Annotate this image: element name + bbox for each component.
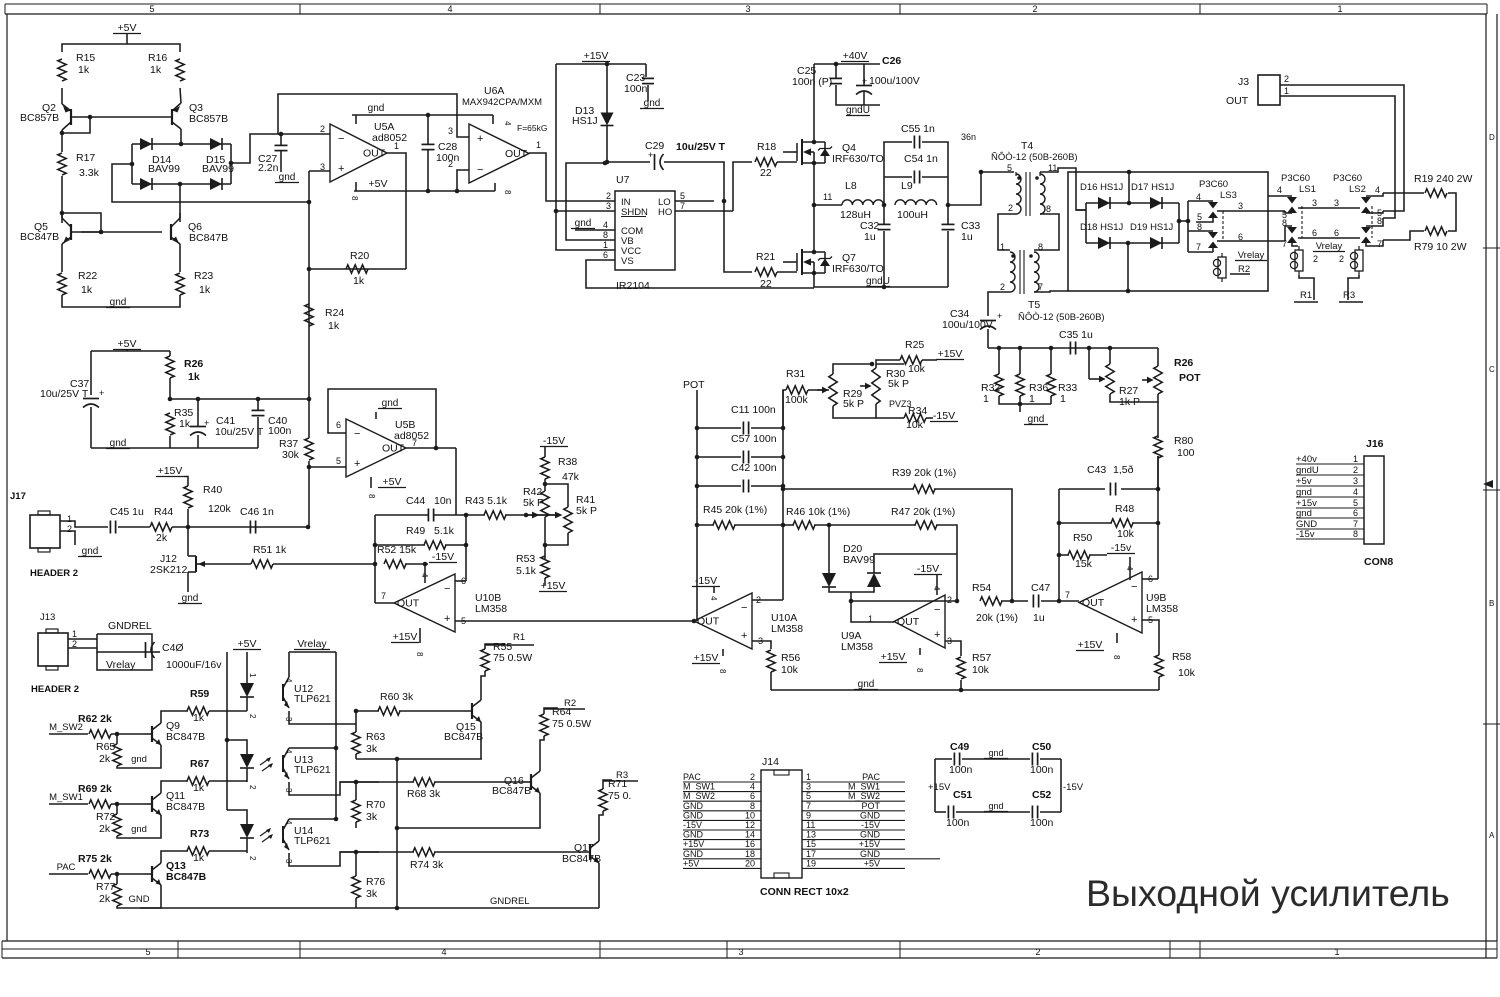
svg-text:1u: 1u [961,231,973,243]
svg-text:OUT: OUT [397,598,420,610]
transistor Q15 [464,700,481,722]
connector J13 [38,629,68,670]
wire fb vert up [374,515,376,564]
junction [1126,241,1131,246]
+15V label U10A [692,652,720,664]
wire C27 down [280,151,282,172]
svg-text:4: 4 [1196,192,1201,202]
wire LS1 p7 [1292,243,1298,246]
svg-text:1: 1 [1029,393,1035,405]
+15V label U10B [391,631,419,643]
wire U9A pin3 to R57 [945,641,961,656]
svg-text:1: 1 [983,393,989,405]
wire to L8 [814,204,842,206]
wire LS1 p8 feed [1285,226,1292,241]
ground label C27 [275,172,299,183]
resistor R74 [413,848,435,856]
svg-text:75 0.5W: 75 0.5W [493,652,532,664]
junction [373,562,378,567]
relay LS3 contact b [1208,232,1218,248]
svg-text:R57: R57 [972,652,991,664]
svg-text:R63: R63 [366,731,385,743]
wire base to collector tie [62,117,90,133]
connector J17 [30,511,60,552]
svg-text:R72: R72 [96,811,115,823]
wire bus to R37 [308,399,310,438]
wire -15V to R38 [544,447,546,457]
wire M_SW1 in [49,803,88,805]
svg-text:1u: 1u [864,231,876,243]
wire bridge bottom rail [132,183,231,185]
wire R74 to Q17 [434,851,582,853]
svg-text:-15V: -15V [933,410,955,422]
transistor Q4 [783,139,832,165]
svg-text:8: 8 [915,668,924,673]
svg-text:Vrelay: Vrelay [1316,241,1343,252]
wire R56 to U9A? no U10A pin3 [752,641,771,649]
svg-text:-15V: -15V [695,575,717,587]
junction [423,562,428,567]
junction [722,199,727,204]
svg-text:5: 5 [336,456,341,466]
svg-text:C26: C26 [882,55,901,67]
svg-text:T5: T5 [1028,299,1040,311]
junction [870,362,875,367]
svg-text:R70: R70 [366,799,385,811]
svg-text:J16: J16 [1366,438,1384,450]
capacitor C37 [83,399,99,408]
svg-text:R15: R15 [76,52,95,64]
resistor R25 [900,356,922,364]
wire C57 left [697,456,741,458]
svg-text:1: 1 [1060,393,1066,405]
svg-text:GND: GND [860,849,881,859]
junction [426,113,431,118]
wire bridge left tap to fb node [112,164,309,202]
svg-text:OUT: OUT [505,148,528,160]
svg-text:5: 5 [806,791,811,801]
wire R33 up [1050,348,1052,374]
wire to Q9 base [111,733,144,735]
svg-text:+: + [204,418,209,428]
border frame right edge [1483,14,1500,958]
wire C44 right [434,514,466,516]
svg-text:2: 2 [947,595,952,605]
svg-text:+15V: +15V [683,839,704,849]
wire R37 down [308,461,310,527]
junction [1127,201,1132,206]
node rail [1049,346,1054,351]
svg-text:6: 6 [336,420,341,430]
wire C42 left [697,485,741,487]
potentiometer R41 wiper arrow [526,512,563,519]
wire T5 pin2 down [988,292,1010,316]
junction [334,746,339,751]
wire C43 right [1121,488,1158,490]
wire LS2 p4 [1366,193,1383,196]
resistor R57 [957,657,965,679]
potentiometer R42 [541,491,549,517]
svg-text:8: 8 [1377,216,1382,226]
connector J14 right pin 7 [802,801,905,811]
junction [354,850,359,855]
diode D19 [1150,237,1162,249]
svg-text:8: 8 [750,801,755,811]
wire C44 row [375,514,428,516]
connector J14 left pin 6 [683,791,761,801]
svg-text:R21: R21 [756,251,775,263]
svg-text:1k: 1k [199,284,211,296]
svg-text:4: 4 [1353,487,1358,497]
resistor R38 [541,457,549,479]
wire C27 up [280,134,282,145]
wire R25 right [922,359,937,361]
wire C28 down [427,150,429,191]
wire C41 up [197,399,199,426]
diode D20b [867,573,881,587]
svg-text:+15V: +15V [881,651,906,663]
svg-text:GNDREL: GNDREL [108,620,152,632]
svg-text:17: 17 [806,849,816,859]
svg-text:R38: R38 [558,456,577,468]
wire bottom to D19 [1127,243,1129,291]
wire R38 R42 gap [544,484,546,491]
wire R79 to LS2 p7 [1383,231,1424,240]
wire R72 top [116,804,118,814]
node rail [1087,346,1092,351]
svg-text:2: 2 [248,785,257,790]
resistor R77 [113,884,121,906]
capacitor C50 [1032,753,1037,766]
wire to T4 pin5 [981,171,1014,173]
wire R39 left [783,488,914,490]
junction [524,513,529,518]
wire row 852 [340,851,414,853]
node R45 L [695,523,700,528]
svg-text:BC857B: BC857B [189,113,228,125]
svg-text:C46 1n: C46 1n [240,506,274,518]
svg-text:OUT: OUT [897,616,920,628]
svg-text:LM358: LM358 [475,603,507,615]
capacitor C57 [743,451,748,464]
capacitor C42 [743,480,748,493]
wire R56 to rail [770,672,772,690]
resistor R71 [599,789,607,811]
junction [849,599,854,604]
connector J14 left pin 12 [683,820,761,830]
svg-text:3k: 3k [366,888,378,900]
node C42 R [781,484,786,489]
connector J14 left pin 10 [683,810,761,820]
svg-text:+: + [997,311,1002,321]
svg-text:+5V: +5V [683,858,699,868]
svg-text:8: 8 [1282,218,1287,228]
op-amp U9B [1079,572,1142,633]
svg-text:2: 2 [1339,254,1344,264]
node rail [1018,346,1023,351]
svg-text:2: 2 [606,191,611,201]
-15v label U9B [1107,542,1135,554]
svg-text:12: 12 [745,820,755,830]
potentiometer R41 [564,507,572,533]
wire Q13 emitter gnd [117,885,161,908]
resistor R20 [346,265,368,273]
wire R70 down [355,822,357,828]
svg-text:gnd: gnd [858,679,875,690]
wire R77 top [116,874,118,884]
wire LS1 p5 join [1285,211,1292,213]
svg-text:+: + [99,388,104,398]
wire +40V rail [814,63,880,65]
connector J16 pin 5 [1296,498,1364,509]
connector J16 pin 1 [1296,454,1364,465]
svg-text:8: 8 [1112,655,1121,660]
wire GNDREL rail [140,907,599,909]
svg-text:OUT: OUT [363,148,386,160]
op-amp U10B [394,574,455,632]
svg-text:1: 1 [1337,4,1342,14]
svg-text:PAC: PAC [683,772,701,782]
wire D13 cathode [606,126,608,162]
capacitor C33 [942,224,955,229]
-15V label R34 [930,410,958,422]
svg-text:7: 7 [806,801,811,811]
svg-text:10u/25V T: 10u/25V T [215,426,264,438]
capacitor C26 [856,86,872,95]
node R45 R [781,523,786,528]
svg-text:-15v: -15v [1296,529,1315,540]
svg-text:100n: 100n [1030,764,1054,776]
wire C45 to R44 [118,526,150,528]
svg-text:R80: R80 [1174,435,1193,447]
svg-text:BC847B: BC847B [189,232,228,244]
svg-text:+: + [1131,614,1137,626]
svg-text:1k: 1k [353,275,365,287]
relay LS3 dashed link [1222,211,1224,241]
wire J12 gate to R51 [203,563,251,565]
svg-text:C4Ø: C4Ø [162,642,184,654]
wire C40 down [257,417,259,448]
border frame top ruler [5,4,1487,14]
svg-text:5.1k: 5.1k [434,525,455,537]
wire R31 to R29 [808,389,829,391]
svg-text:2: 2 [750,772,755,782]
svg-text:C51: C51 [953,789,972,801]
wire LED3 bottom [246,838,248,853]
wire LS2 p5 [1366,211,1383,213]
svg-text:1: 1 [1334,947,1339,957]
svg-text:2k: 2k [156,532,168,544]
wire LS1 LS2 bottom [1298,237,1360,239]
wire LS3 p7 feed [1188,251,1213,253]
junction [455,189,460,194]
svg-text:+: + [444,613,450,625]
op-amp U9A [894,595,945,648]
wire C51 left [935,811,946,813]
wire U7 LO out [675,200,714,202]
ground label R36 [1024,414,1048,425]
svg-text:+15V: +15V [584,50,609,62]
svg-text:LM358: LM358 [1146,603,1178,615]
wire R2 bar [1230,273,1250,275]
wire R20 row [309,268,406,270]
capacitor C47 [1033,595,1038,608]
wire U10A pin2 [752,599,783,601]
node C57 R [781,455,786,460]
wire box to LS1 p4 [1268,195,1292,197]
opto U13 transistor [283,748,289,779]
rectifier box outline [1068,172,1268,291]
diode D15b [210,178,222,190]
wire C49 left [935,758,952,760]
svg-text:-15V: -15V [432,551,454,563]
junction [979,170,984,175]
svg-text:HEADER 2: HEADER 2 [30,568,78,579]
wire C33 down [947,231,949,287]
wire fb bus x309 [308,171,310,399]
svg-text:gnd: gnd [988,801,1003,811]
svg-text:R18: R18 [757,141,776,153]
svg-text:C: C [1489,365,1495,374]
svg-text:BC847B: BC847B [562,853,601,865]
resistor R68 [413,778,435,786]
wire C37 down [90,407,92,448]
wire U10A V+ stub [722,649,724,656]
wire C26 up [863,64,865,85]
border frame bottom ruler [2,941,1497,958]
wire bus to R31 [783,390,786,428]
svg-text:100n: 100n [949,764,973,776]
wire node rail mid [170,398,309,400]
junction [464,513,469,518]
svg-text:7: 7 [1282,239,1287,249]
svg-text:6: 6 [1334,228,1339,238]
svg-text:2: 2 [1008,203,1013,213]
junction [812,203,817,208]
node rail [1108,346,1113,351]
+15V label U9A [879,651,907,663]
wire Q6 emitter to R23 [179,244,181,272]
wire K2 to R3 [1348,275,1359,300]
wire LED2 top [227,740,247,754]
svg-text:J13: J13 [40,612,55,623]
svg-text:VS: VS [621,256,634,267]
IC U7 box [615,191,675,270]
svg-text:1: 1 [248,673,257,678]
wire U13 out [289,782,379,795]
wire Q16 emitter [397,793,540,828]
wire LED3 top [227,810,247,824]
svg-text:R67: R67 [190,758,209,770]
wire PAC in [49,873,88,875]
junction [834,62,839,67]
wire R27 arrow feed [1088,348,1090,379]
ground label C23 [640,98,664,109]
wire R49 row [375,544,425,546]
svg-text:10u/25V T: 10u/25V T [40,388,89,400]
svg-text:R16: R16 [148,52,167,64]
svg-text:D19 HS1J: D19 HS1J [1130,222,1174,233]
wire U9A V+ stub [919,648,921,655]
wire U12 out [289,718,356,724]
resistor R51 [251,560,273,568]
svg-text:1,5ð: 1,5ð [1113,464,1134,476]
wire Q4 drain up [813,64,815,142]
svg-text:8: 8 [1197,222,1202,232]
svg-text:R23: R23 [194,270,213,282]
svg-text:3k: 3k [366,743,378,755]
svg-text:−: − [477,164,483,176]
junction [60,131,65,136]
junction [882,285,887,290]
+15V label R25 [936,348,964,360]
wire Q15 emitter row [356,758,482,760]
junction [354,780,359,785]
svg-text:R31: R31 [786,368,805,380]
svg-text:C52: C52 [1032,789,1051,801]
potentiometer R27 [1094,364,1114,394]
svg-text:LM358: LM358 [841,641,873,653]
svg-text:5k P: 5k P [576,505,597,517]
svg-text:3: 3 [758,636,763,646]
svg-text:U6A: U6A [484,85,504,97]
svg-text:D16 HS1J: D16 HS1J [1080,182,1124,193]
transistor Q7 [783,249,832,275]
relay LS1-LS2 dashed [1301,206,1303,238]
svg-text:P3C60: P3C60 [1199,179,1228,190]
capacitor C41 [190,427,206,436]
wire U7 VS down [586,260,814,288]
svg-text:R74 3k: R74 3k [410,859,444,871]
wire R27 R26 bottom [1110,394,1158,402]
connector J14 left pin 18 [683,849,761,859]
transistor Q6 [171,213,180,244]
wire to U5B in+ [309,466,346,468]
transistor Q3 [172,103,181,129]
ground label COM [571,218,595,229]
junction [692,619,697,624]
svg-text:IRF630/TO: IRF630/TO [832,263,884,275]
svg-text:TLP621: TLP621 [294,693,331,705]
junction [946,203,951,208]
wire R43 to pots [505,514,556,516]
wire Q2 Q3 base bus [71,116,172,118]
wire R32 up [998,348,1000,374]
wire C34 node rail [988,347,1158,349]
connector J14 right pin 1 [802,772,905,782]
wire Q4 source to Q7 drain [813,163,815,252]
svg-text:U7: U7 [616,174,630,186]
wire D20 bottom [829,587,874,592]
node C57 L [695,455,700,460]
wire C25 up [835,64,837,78]
junction [434,446,439,451]
junction [60,211,65,216]
junction [395,826,400,831]
junction [307,465,312,470]
connector J3 [1258,75,1280,105]
svg-text:gndU: gndU [866,276,890,287]
resistor R23 [176,273,184,295]
junction [1177,219,1182,224]
wire R50 to -15v [1089,554,1107,556]
svg-text:18: 18 [745,849,755,859]
diode D18 [1098,237,1110,249]
svg-text:POT: POT [1179,372,1201,384]
+15V label U9B [1076,639,1104,651]
connector J14 left pin 14 [683,830,761,840]
ground label J12 [178,593,202,604]
